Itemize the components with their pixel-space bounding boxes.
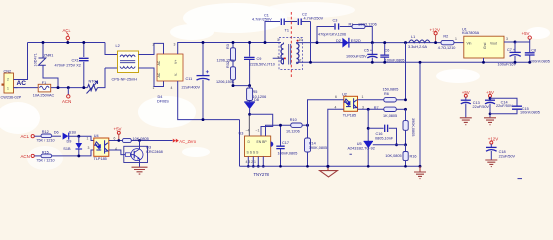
junction R14 bottom xyxy=(306,165,309,168)
ground (C14) xyxy=(484,118,496,125)
diode D2 xyxy=(342,38,349,48)
junction U1 gnd xyxy=(482,61,485,64)
junction R3 top xyxy=(232,41,235,44)
svg-text:1000uF/25V: 1000uF/25V xyxy=(346,55,367,59)
svg-text:3: 3 xyxy=(88,146,90,150)
svg-text:R16: R16 xyxy=(410,155,417,159)
resistor R16 xyxy=(403,145,408,167)
svg-text:4 3 2 1: 4 3 2 1 xyxy=(246,160,256,164)
svg-text:C18: C18 xyxy=(499,150,506,154)
svg-text:R1: R1 xyxy=(349,23,354,27)
junction bus x68.3 xyxy=(67,86,70,89)
power +5V (pull-up) xyxy=(114,127,122,141)
source pin stubs xyxy=(248,157,263,167)
svg-text:KRC2468: KRC2468 xyxy=(146,150,162,154)
diode D6 xyxy=(63,133,94,141)
svg-text:470pF/1KV,1206: 470pF/1KV,1206 xyxy=(318,33,346,37)
svg-text:Vin: Vin xyxy=(467,42,472,46)
junction pull-up xyxy=(117,139,120,142)
svg-text:C17: C17 xyxy=(282,141,289,145)
junction CX1 top xyxy=(82,41,85,44)
junction EN node xyxy=(306,124,309,127)
capacitor C16 (loop) xyxy=(368,125,396,145)
svg-text:C7 +: C7 + xyxy=(507,48,516,52)
svg-text:2226,50V,JT10: 2226,50V,JT10 xyxy=(250,63,275,67)
svg-text:390K,0805: 390K,0805 xyxy=(309,146,327,150)
ground (C18) xyxy=(485,160,497,167)
wire: feedback riser x405 xyxy=(405,43,407,100)
svg-text:KIA7805A: KIA7805A xyxy=(462,31,480,35)
wire: drain node to TNY drain xyxy=(250,114,273,136)
junction C11 bottom xyxy=(202,118,205,121)
resistor R13 xyxy=(123,138,132,142)
svg-text:22uF/400V: 22uF/400V xyxy=(182,85,201,89)
wire: left vertical to CN2 pin2 xyxy=(14,43,28,80)
wire: U2 pin1 to R6 xyxy=(358,99,384,101)
svg-text:390K,0805: 390K,0805 xyxy=(411,118,415,136)
svg-text:100nF,0805: 100nF,0805 xyxy=(520,111,540,115)
svg-text:1: 1 xyxy=(153,86,155,90)
wire: U2 pin3 to R7 xyxy=(358,108,384,110)
ground (cold rail) xyxy=(414,166,426,178)
svg-text:R5: R5 xyxy=(253,90,258,94)
wire: R32 bottom to clamp node xyxy=(233,80,250,86)
capacitor C11 xyxy=(197,43,210,120)
svg-text:C6: C6 xyxy=(385,49,390,53)
junction ZNR1 top xyxy=(42,41,45,44)
svg-text:1: 1 xyxy=(277,38,279,42)
resistor R15 xyxy=(41,154,52,158)
transformer T1 xyxy=(273,38,303,70)
net flag AC_Zero xyxy=(173,139,197,144)
svg-text:U4: U4 xyxy=(94,134,99,138)
junction C11 top xyxy=(202,41,205,44)
wire: R12 to D6 xyxy=(52,135,61,137)
svg-text:CPS-NF-25mH: CPS-NF-25mH xyxy=(112,77,138,81)
junction D9 top xyxy=(77,135,80,138)
wire: secondary ground rail xyxy=(297,61,531,63)
junction D9 bottom xyxy=(77,154,80,157)
diode D9 xyxy=(76,136,83,156)
shunt regulator U5 (TL431) xyxy=(350,141,406,166)
svg-text:3: 3 xyxy=(174,43,176,47)
wire: F1 to NTC1 bus xyxy=(51,87,88,89)
svg-text:2: 2 xyxy=(153,43,155,47)
power +5V (C13) xyxy=(462,90,470,97)
svg-text:22uF/50V: 22uF/50V xyxy=(496,104,513,108)
svg-text:+5V: +5V xyxy=(522,31,530,36)
svg-text:F1: F1 xyxy=(42,81,46,85)
fuse F1 xyxy=(38,84,51,92)
wire: U4 pin4 to Q3 base xyxy=(109,150,124,155)
junction C15 loop top xyxy=(489,97,492,100)
junction TL431 anode xyxy=(367,165,370,168)
svg-text:S1B: S1B xyxy=(63,147,71,151)
wire: secondary V+ rail xyxy=(299,42,441,44)
transistor Q3 xyxy=(124,141,148,167)
junction pin3/TL431 node xyxy=(367,108,370,111)
svg-text:TLP185: TLP185 xyxy=(94,157,107,161)
svg-text:TLP185: TLP185 xyxy=(343,114,356,118)
junction +12V xyxy=(434,41,437,44)
bridge rectifier D4 xyxy=(157,54,183,81)
junction snubber left xyxy=(316,41,319,44)
svg-text:R32: R32 xyxy=(226,61,230,68)
capacitor C9 xyxy=(244,43,255,86)
optocoupler U2 xyxy=(344,96,358,111)
junction C5/snubber at rail xyxy=(371,41,374,44)
svg-text:AC: AC xyxy=(17,80,27,87)
IC U3 TNY278 xyxy=(245,136,274,157)
resistor R32 xyxy=(231,67,236,80)
port ACN (tap below bus) xyxy=(62,88,71,105)
svg-text:0805,10nF: 0805,10nF xyxy=(375,137,394,141)
svg-text:100Ω,1206: 100Ω,1206 xyxy=(358,23,377,27)
svg-text:AC: AC xyxy=(157,72,161,77)
svg-text:3: 3 xyxy=(277,56,279,60)
svg-text:R6: R6 xyxy=(384,92,389,96)
svg-text:U3: U3 xyxy=(239,131,244,135)
svg-text:100nF,0805: 100nF,0805 xyxy=(385,58,405,62)
svg-text:D9: D9 xyxy=(67,140,72,144)
junction ground drop xyxy=(419,61,422,64)
power +12V xyxy=(430,27,440,42)
capacitor C5 xyxy=(367,43,377,63)
svg-text:22uF/50V: 22uF/50V xyxy=(499,154,516,158)
svg-text:R3: R3 xyxy=(226,44,230,49)
snubber loop C3+R1 across D2 xyxy=(317,23,372,42)
svg-text:EN BP: EN BP xyxy=(257,140,268,144)
svg-text:1: 1 xyxy=(362,95,364,99)
svg-text:D2: D2 xyxy=(336,39,341,43)
wire: R13 to AC_Zero xyxy=(131,140,172,142)
wire: U4 pin6 to R13 xyxy=(109,140,123,142)
capacitor C1 xyxy=(281,19,297,26)
capacitor C14 xyxy=(485,97,495,117)
junction C17 bottom xyxy=(279,165,282,168)
junction C5 bottom xyxy=(371,61,374,64)
junction R16 bottom xyxy=(404,165,407,168)
resistor R14 xyxy=(305,125,311,166)
wire: bottom AC bus CN2 pin1 to F1 xyxy=(14,87,39,89)
svg-text:V+: V+ xyxy=(174,60,178,64)
junction R32 bottom xyxy=(232,84,235,87)
wire: ground rail drop to cold rail xyxy=(419,62,421,166)
svg-text:TNY278: TNY278 xyxy=(254,172,270,177)
svg-text:AC_Zero: AC_Zero xyxy=(179,139,196,144)
resistor R2 xyxy=(441,40,464,44)
junction C7 top xyxy=(514,41,517,44)
resistor R10 xyxy=(291,123,303,127)
svg-text:DF06S: DF06S xyxy=(157,100,169,104)
svg-text:C9: C9 xyxy=(257,57,262,61)
capacitor CX1 xyxy=(79,43,89,88)
svg-text:D4: D4 xyxy=(158,95,163,99)
junction C8 bottom xyxy=(528,61,531,64)
svg-text:R15: R15 xyxy=(42,150,49,154)
optocoupler U4 xyxy=(94,138,109,156)
junction feedback tap at rail xyxy=(404,41,407,44)
wire: +5V node xyxy=(515,41,530,43)
svg-text:R2: R2 xyxy=(443,35,448,39)
junction C16 tap xyxy=(367,127,370,130)
junction C2 at ground rail xyxy=(309,61,312,64)
svg-text:L1: L1 xyxy=(411,35,415,39)
resistor R9 xyxy=(403,121,408,131)
svg-text:Vout: Vout xyxy=(490,42,497,46)
junction cold rail end xyxy=(419,165,422,168)
svg-text:−4: −4 xyxy=(246,129,250,133)
svg-text:2: 2 xyxy=(7,78,9,82)
svg-text:10D471: 10D471 xyxy=(34,53,38,66)
wire: D4 V- down to minus rail xyxy=(178,81,240,120)
wire: R3 to R32 xyxy=(232,61,234,67)
junction C17 top xyxy=(279,124,282,127)
capacitor C18 xyxy=(486,144,497,160)
svg-text:D6: D6 xyxy=(54,131,59,135)
svg-text:C3: C3 xyxy=(333,19,338,23)
junction R6 node xyxy=(404,98,407,101)
junction Q3 collector xyxy=(138,139,141,142)
junction ACL xyxy=(66,41,69,44)
svg-text:100uF/16V: 100uF/16V xyxy=(498,63,517,67)
wire: BP pin riser to R10 wire xyxy=(266,125,291,136)
svg-text:6: 6 xyxy=(335,95,337,99)
svg-text:4.7Ω,1210: 4.7Ω,1210 xyxy=(438,46,456,50)
svg-text:S S S S: S S S S xyxy=(247,151,260,155)
svg-text:75K / 1210: 75K / 1210 xyxy=(36,159,54,163)
isolation boundary (red dashed) xyxy=(290,12,292,78)
svg-text:ACN: ACN xyxy=(21,154,30,159)
capacitor C15 (parallel loop) xyxy=(490,98,522,114)
ground (Q3 emitter) xyxy=(132,167,148,174)
svg-text:22uF/50V: 22uF/50V xyxy=(473,105,490,109)
decorative white smudges (not labelled) xyxy=(0,2,550,170)
junction C6 bottom xyxy=(383,61,386,64)
svg-text:S1B: S1B xyxy=(69,131,77,135)
junction clamp node xyxy=(248,84,251,87)
svg-text:AC: AC xyxy=(157,60,161,65)
chassis ground (cold side) xyxy=(320,166,338,177)
wire: R15 to U4 pin3 xyxy=(52,150,94,156)
capacitor C13 xyxy=(461,97,471,117)
junction C16 loop at ref xyxy=(395,143,398,146)
wire: top bus to L2 riser xyxy=(105,43,118,55)
svg-text:NTC1: NTC1 xyxy=(89,80,99,84)
wire: NTC1 to L2 riser xyxy=(98,68,106,88)
regulator U1 xyxy=(464,36,515,62)
svg-text:ES2D: ES2D xyxy=(351,39,361,43)
capacitor C2 xyxy=(298,19,310,26)
svg-text:CW236-02P: CW236-02P xyxy=(1,96,22,100)
capacitor C6 xyxy=(380,43,389,63)
power +5V (output) xyxy=(522,31,532,40)
junction C15 loop bottom xyxy=(489,112,492,115)
capacitor C17 xyxy=(276,125,284,166)
junction ref node xyxy=(404,143,407,146)
thermistor NTC1 xyxy=(87,82,98,94)
wire: TL431 cathode drop xyxy=(367,109,369,141)
junction C7 bottom xyxy=(514,61,517,64)
port ACL (top) xyxy=(63,28,71,43)
inductor L1 xyxy=(409,40,430,43)
svg-text:U5: U5 xyxy=(357,142,362,146)
svg-text:CX1: CX1 xyxy=(72,59,79,63)
svg-text:R14: R14 xyxy=(309,141,316,145)
junction bus x83.8 xyxy=(82,86,85,89)
wire: minus rail down to source rail xyxy=(239,120,241,167)
svg-text:150,0805: 150,0805 xyxy=(383,88,399,92)
wire: R7 to riser xyxy=(396,108,405,110)
junction bus x58 xyxy=(57,86,60,89)
svg-text:D8: D8 xyxy=(254,98,259,102)
svg-text:1: 1 xyxy=(87,137,89,141)
junction C6 top xyxy=(383,41,386,44)
svg-text:C5 +: C5 + xyxy=(364,49,373,53)
junction C9 top xyxy=(248,41,251,44)
wire: source/cold ground rail xyxy=(240,165,421,167)
svg-text:R10: R10 xyxy=(290,118,297,122)
svg-text:470nF 275V X2: 470nF 275V X2 xyxy=(55,63,81,67)
junction snubber left xyxy=(264,41,267,44)
junction U2 pin4 at rail xyxy=(326,165,329,168)
wire: top-left AC bus xyxy=(28,42,106,44)
svg-text:10K,0805: 10K,0805 xyxy=(385,154,401,158)
svg-text:+12V: +12V xyxy=(488,137,498,142)
wire: R10 to node xyxy=(302,124,307,126)
wire: L2 to D4 top staple xyxy=(139,43,164,54)
power +12V (C18) xyxy=(488,137,498,145)
diode D8 xyxy=(244,101,255,115)
svg-text:4.7nF/250V: 4.7nF/250V xyxy=(304,16,324,20)
svg-text:100nF,0805: 100nF,0805 xyxy=(530,59,550,63)
svg-text:1: 1 xyxy=(7,87,9,91)
svg-text:10A 250VAC: 10A 250VAC xyxy=(33,93,55,97)
svg-text:T1: T1 xyxy=(285,29,289,33)
common-mode choke L2 xyxy=(118,51,139,73)
svg-text:1: 1 xyxy=(455,37,457,41)
svg-text:A2431B2,TO-92: A2431B2,TO-92 xyxy=(348,147,375,151)
svg-text:4: 4 xyxy=(171,86,173,90)
wire: U2 pin6 to EN node xyxy=(308,100,344,125)
svg-text:10,1206: 10,1206 xyxy=(286,129,300,133)
svg-text:1K,0805: 1K,0805 xyxy=(383,114,397,118)
svg-text:4.7nF/250V: 4.7nF/250V xyxy=(252,18,272,22)
svg-text:10: 10 xyxy=(299,38,303,42)
port ACN xyxy=(21,154,42,159)
varistor ZNR1 xyxy=(39,43,59,88)
svg-text:R7: R7 xyxy=(374,106,379,110)
wire: D4 V+ to primary DC rail xyxy=(178,43,281,55)
port ACL xyxy=(21,134,42,139)
svg-text:CN2: CN2 xyxy=(4,70,12,74)
junction S pins xyxy=(247,165,250,168)
wire: stray mark bottom right xyxy=(518,178,523,180)
svg-text:L2: L2 xyxy=(116,44,120,48)
svg-text:100nF,0805: 100nF,0805 xyxy=(278,151,298,155)
wire: L2 lower-left pin xyxy=(105,67,118,69)
junction R7 node xyxy=(404,108,407,111)
svg-text:ZNR1: ZNR1 xyxy=(44,54,54,58)
svg-text:75K / 1210: 75K / 1210 xyxy=(36,139,54,143)
wire: C2 down to secondary ground rail xyxy=(310,22,312,63)
svg-text:3: 3 xyxy=(506,37,508,41)
svg-text:1206,150K: 1206,150K xyxy=(216,80,235,84)
wire: snubber left riser xyxy=(265,22,280,43)
wire: R9 to ref node xyxy=(405,130,407,145)
svg-text:−1: −1 xyxy=(256,129,260,133)
resistor R12 xyxy=(41,134,52,138)
capacitor C8 xyxy=(525,39,535,62)
svg-text:V-: V- xyxy=(174,73,178,76)
connector CN2 xyxy=(2,73,18,93)
svg-text:+5V: +5V xyxy=(114,127,122,132)
junction drain node xyxy=(248,113,251,116)
svg-text:Gnd: Gnd xyxy=(483,42,487,49)
svg-text:ACL: ACL xyxy=(21,134,30,139)
svg-text:R12: R12 xyxy=(42,130,49,134)
svg-text:U2: U2 xyxy=(342,92,347,96)
wire: L2 to D4 bottom staple xyxy=(139,68,164,87)
resistor R5 xyxy=(247,86,253,101)
resistor R6 xyxy=(384,98,397,102)
pin stub D (dark) xyxy=(248,116,250,137)
power +5V (C14) xyxy=(486,90,494,97)
wire: U2 pin4 to cold rail xyxy=(328,109,344,166)
svg-text:C16: C16 xyxy=(376,132,383,136)
wire: R6 to riser xyxy=(396,99,405,101)
ground (C13) xyxy=(460,118,472,125)
svg-text:C11: C11 xyxy=(186,77,193,81)
svg-text:ACN: ACN xyxy=(62,99,71,104)
resistor R7 xyxy=(384,107,397,111)
wire: riser through R9 xyxy=(405,109,407,120)
svg-text:3.3uH,2.6A: 3.3uH,2.6A xyxy=(408,45,427,49)
resistor R3 xyxy=(231,43,236,62)
capacitor C7 xyxy=(510,42,521,62)
svg-text:C8: C8 xyxy=(531,48,536,52)
junction chassis gnd xyxy=(327,165,330,168)
